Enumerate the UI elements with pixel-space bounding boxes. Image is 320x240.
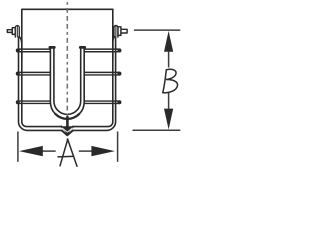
B bottom reference line [133,129,181,131]
left nut [12,28,15,35]
left screw head [7,30,12,33]
rung 1 (wire band) [16,48,122,52]
B arrow down [164,109,173,130]
A arrow left [19,146,43,156]
B dimension line upper [168,51,170,68]
B arrow up [164,31,173,52]
rung 2 (wire band) [16,72,122,76]
dimension A [18,132,118,162]
V notch at bottom rim [62,127,74,132]
U tube (inner dip tube), white fill hides rungs behind [50,47,84,119]
right screw head [121,29,127,33]
left clamp [15,26,19,38]
A left extension line [17,132,19,162]
right bend wire [113,37,115,43]
B dimension line lower [168,93,170,109]
inner basket outline / body sides + upper rim [22,40,62,127]
A right extension line [117,132,119,162]
letter B [163,69,178,92]
right nut [118,27,121,36]
centerline (dashed) [66,2,68,141]
letter A [58,139,77,166]
left bend wire [19,37,22,43]
outer cage wire left + lower rim [19,35,62,131]
right clamp [114,26,118,38]
dimension B [133,30,181,130]
body (container tube) [22,9,113,60]
A arrow right [91,146,115,156]
A dimension line left [42,150,55,152]
U tube top caps [49,46,56,49]
center hanger rod below U [66,117,69,127]
A dimension line right [79,150,92,152]
B top reference line [134,29,180,31]
rung 3 (wire band) [16,100,122,104]
